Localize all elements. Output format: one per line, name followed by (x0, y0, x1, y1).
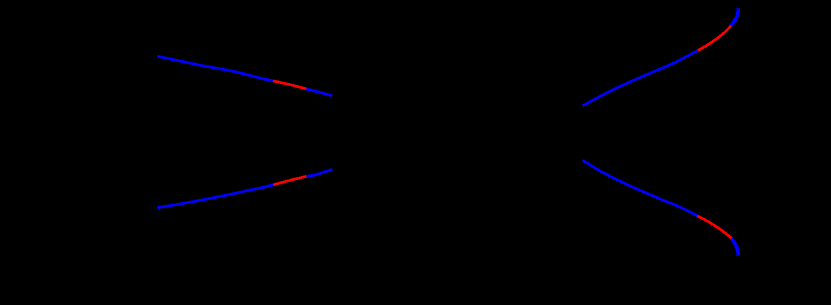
lower-left ray: red overlay segment (273, 176, 306, 184)
upper-right ray: full blue curve bending up toward vertical (583, 9, 739, 106)
upper-right ray: red overlay segment (698, 26, 731, 51)
upper-left ray: full blue curve (157, 56, 332, 96)
upper-right ray: blue tip hook (wider) (731, 8, 738, 25)
upper-left ray: red overlay segment (273, 81, 306, 89)
lower-right ray: red overlay segment (698, 216, 732, 239)
lower-right ray: blue tip hook (wider) (732, 238, 739, 255)
lower-left ray: full blue curve (157, 170, 332, 208)
lower-right ray: full blue curve bending down toward vertical (583, 160, 738, 255)
